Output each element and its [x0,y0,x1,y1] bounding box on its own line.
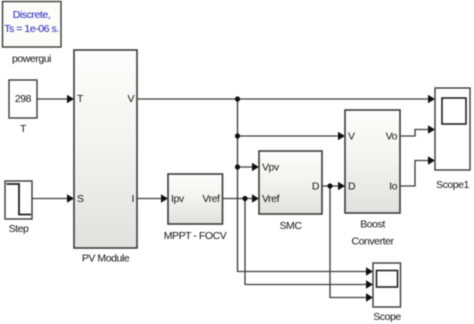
PV Module subsystem U1 [74,50,137,248]
svg-text:D: D [312,181,320,193]
svg-text:powergui: powergui [12,53,51,65]
wire Boost Vo to Scope1 input 2 [401,125,436,136]
svg-text:Vref: Vref [202,193,220,205]
svg-text:Boost: Boost [360,219,385,231]
svg-text:Step: Step [9,223,29,235]
Scope block [373,263,401,307]
svg-text:T: T [77,93,84,105]
svg-text:V: V [348,131,355,143]
wire Boost Io to Scope1 input 3 [401,156,436,186]
wire Step to PV Module S [32,194,74,202]
MPPT - FOCV subsystem [168,174,223,224]
svg-text:D: D [348,181,356,193]
svg-text:I: I [132,193,134,205]
wire T constant to PV Module [38,95,75,103]
Boost Converter label [351,219,394,248]
wire D branch to Scope input 3 [330,293,373,301]
wire MPPT Vref to SMC Vref [223,194,260,202]
wire D branch vertical down [329,186,331,298]
node Vref junction [242,196,247,201]
svg-text:Ts = 1e-06 s.: Ts = 1e-06 s. [4,23,59,35]
Boost Converter subsystem [345,110,400,213]
Scope1 block [435,88,470,170]
svg-text:Discrete,: Discrete, [13,9,50,21]
powergui block [3,2,62,48]
svg-text:Vo: Vo [386,131,398,143]
wire V branch bottom to Scope input 1 [238,267,374,275]
svg-text:SMC: SMC [280,220,303,232]
svg-text:S: S [77,193,84,205]
node V junction at SMC branch [235,164,240,169]
wire V branch to Boost V input [238,132,346,140]
svg-text:Scope: Scope [373,311,401,323]
SMC subsystem [259,151,322,214]
wire PV I output to MPPT Ipv [138,194,169,202]
svg-text:PV Module: PV Module [82,253,130,265]
wire Vref branch to Scope input 2 [245,280,373,288]
svg-text:Converter: Converter [351,236,394,248]
svg-text:V: V [127,93,134,105]
node V junction at Boost branch [235,133,240,138]
svg-text:MPPT - FOCV: MPPT - FOCV [164,230,227,242]
svg-text:298: 298 [15,93,32,105]
wire V: PV V output to Scope1 input 1 [138,95,435,103]
svg-text:Scope1: Scope1 [436,179,470,191]
svg-text:Ipv: Ipv [171,193,185,205]
node V junction top [235,96,240,101]
wire V branch vertical down [237,99,239,272]
wire Vref branch vertical down [244,199,246,286]
svg-text:Vpv: Vpv [262,162,280,174]
wire V branch to SMC Vpv input [238,163,260,171]
svg-text:Vref: Vref [262,193,280,205]
wire SMC D to Boost D [322,182,345,190]
svg-text:Io: Io [389,181,397,193]
constant T block (298) [9,80,37,118]
svg-text:T: T [20,123,27,135]
node D junction [327,183,332,188]
Step block [5,181,32,219]
